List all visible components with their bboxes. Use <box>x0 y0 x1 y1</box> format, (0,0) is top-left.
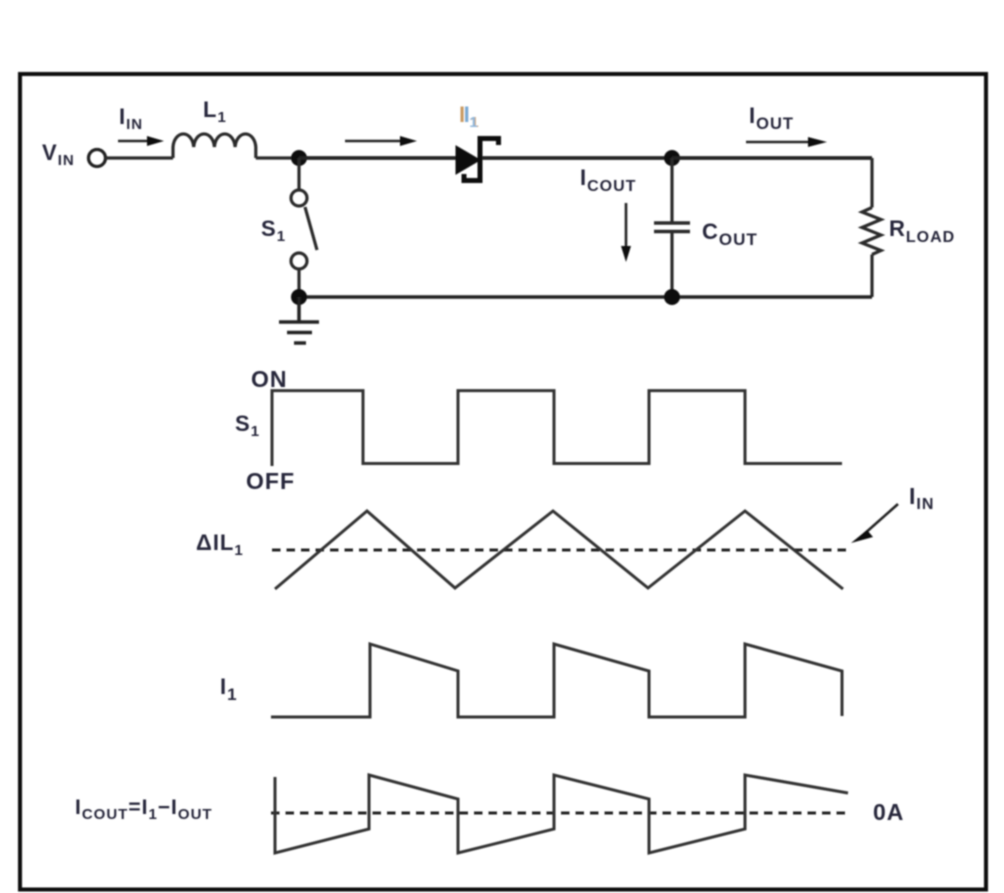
diode D1 schottky <box>456 136 499 183</box>
wire corner to RLOAD <box>870 158 873 208</box>
arrow IOUT <box>746 137 827 147</box>
ICOUT waveform trace <box>275 775 848 853</box>
svg-text:0A: 0A <box>873 799 904 825</box>
switch S1 bottom contact <box>291 253 307 269</box>
dashed zero line 0A <box>271 812 849 815</box>
wire node B to corner <box>672 156 872 160</box>
wire COUT to node C <box>670 232 673 298</box>
node A junction <box>291 150 307 166</box>
node C junction <box>664 289 680 305</box>
resistor RLOAD <box>862 208 881 255</box>
arrow IIN <box>118 136 164 146</box>
wire L1 to node A <box>256 156 299 159</box>
wire RLOAD to bottom rail <box>870 255 873 298</box>
switch S1 top contact <box>291 190 307 206</box>
I1 waveform trace <box>271 644 842 717</box>
capacitor COUT <box>654 223 690 232</box>
bottom rail wire <box>299 295 872 299</box>
delta IL1 waveform trace <box>275 511 843 589</box>
arrow ICOUT <box>621 203 631 262</box>
wire switch S1 to node D <box>297 269 300 297</box>
terminal VIN <box>89 150 106 167</box>
wire node A to switch S1 <box>297 158 300 190</box>
node D junction <box>291 289 307 305</box>
switch S1 blade <box>305 207 317 250</box>
arrow I1 flow <box>345 136 417 146</box>
wire VIN to L1 <box>105 156 173 159</box>
S1 waveform trace <box>272 391 842 466</box>
svg-text:ON: ON <box>251 366 288 392</box>
svg-text:OFF: OFF <box>246 468 295 494</box>
ground <box>279 297 319 343</box>
wire node A to diode <box>299 156 457 160</box>
inductor L1 <box>173 134 256 158</box>
dashed average line IIN <box>272 549 848 552</box>
wire diode to node B <box>482 156 672 160</box>
arrow IIN annotation <box>851 504 898 543</box>
node B junction <box>664 150 680 166</box>
wire node B to COUT <box>670 158 673 223</box>
